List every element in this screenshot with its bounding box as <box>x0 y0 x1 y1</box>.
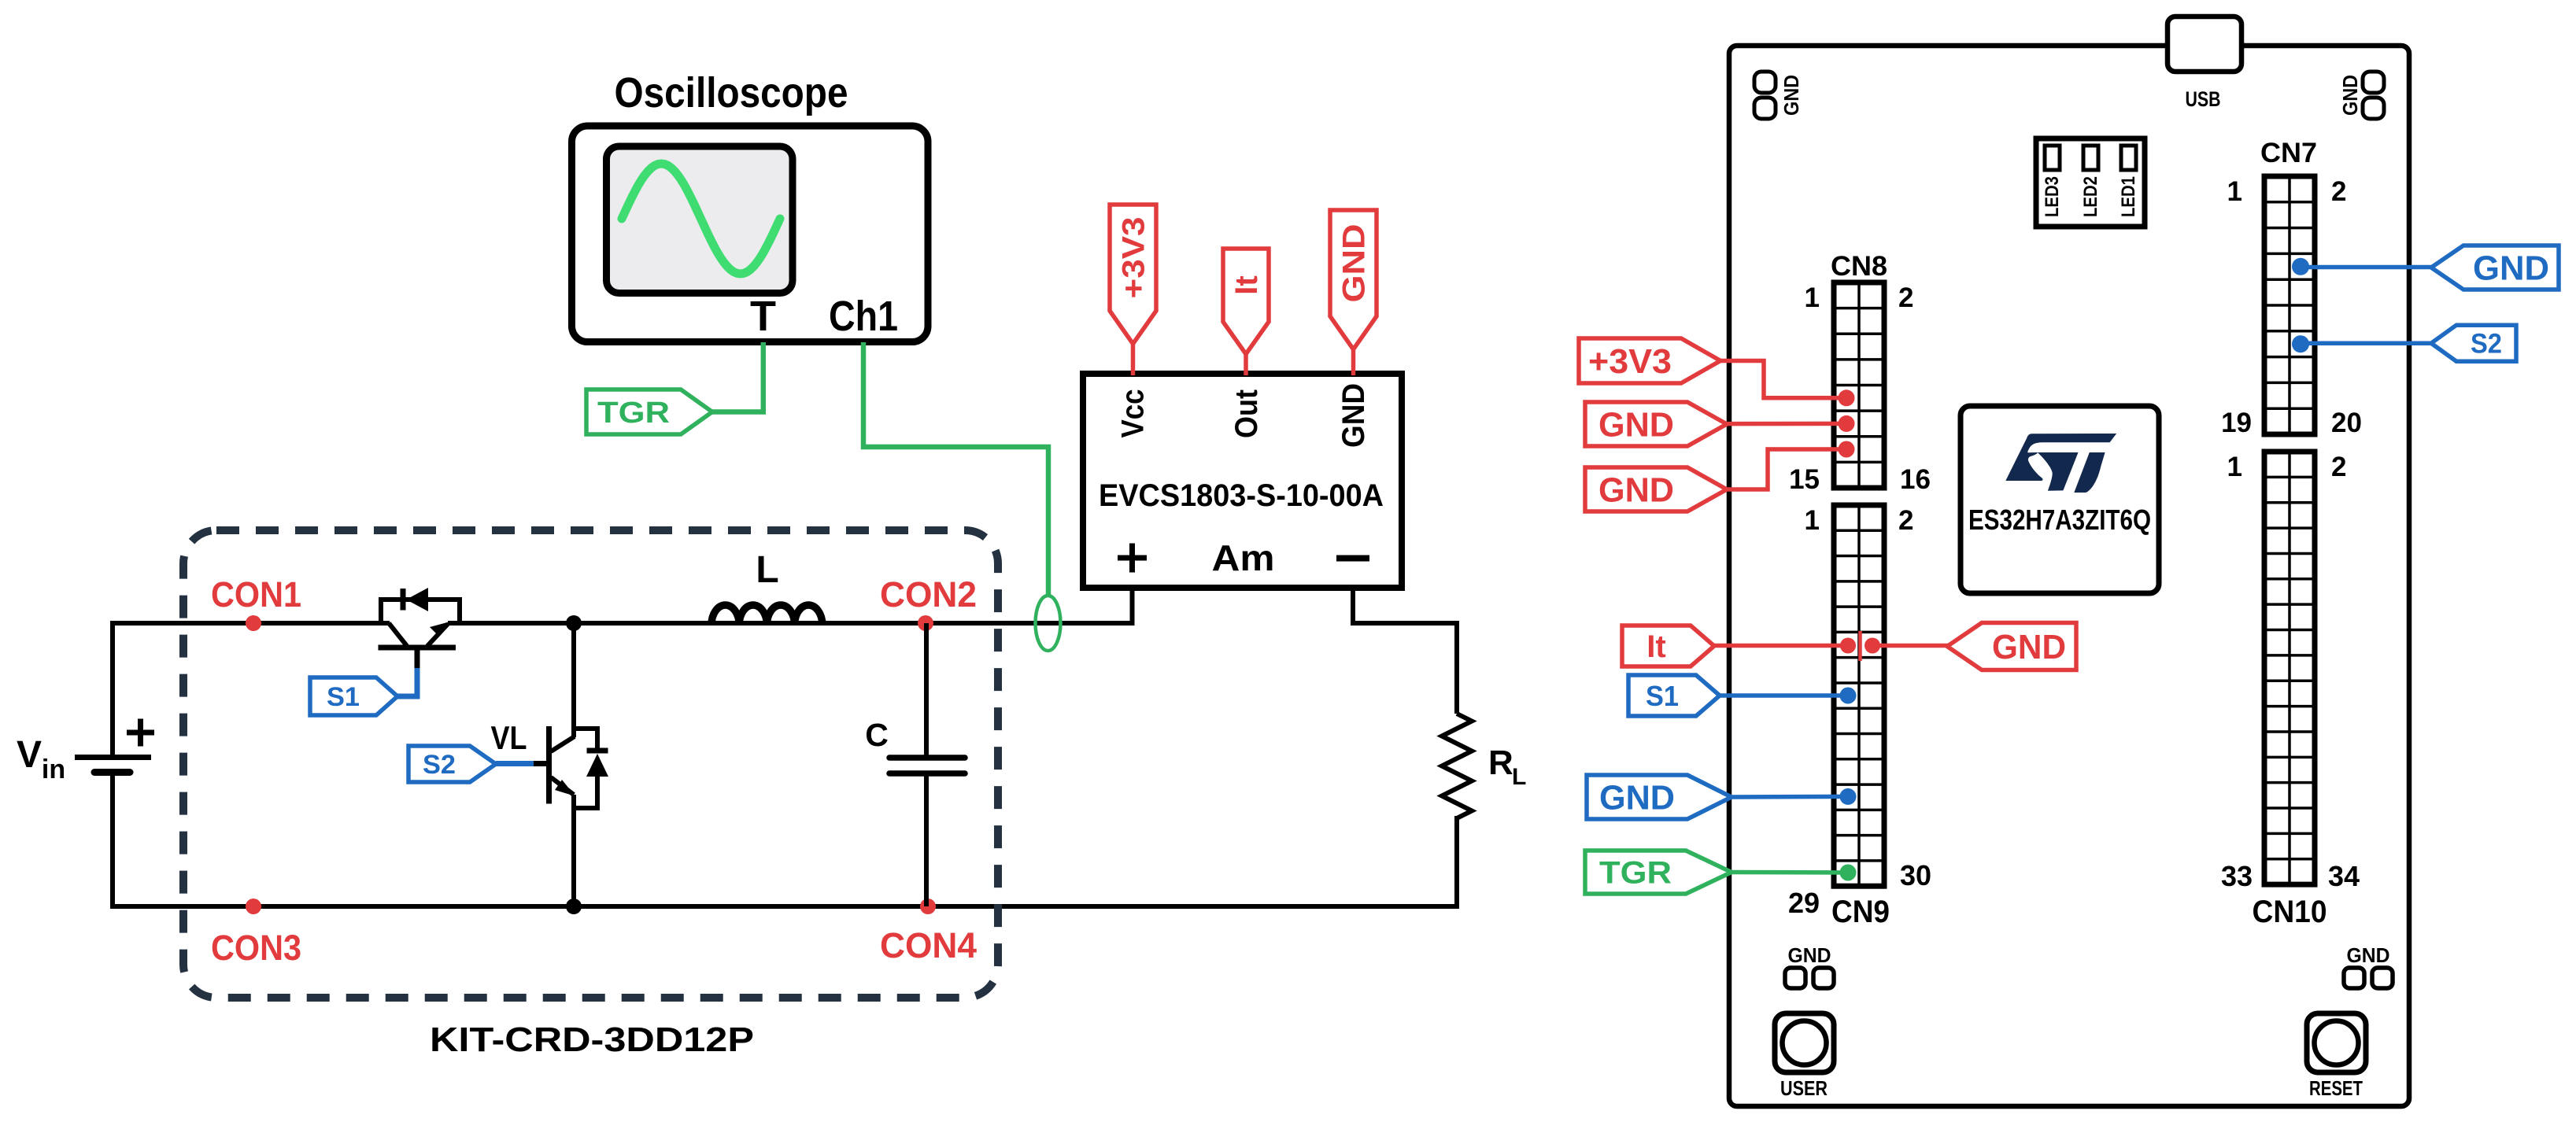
svg-text:Am: Am <box>1212 537 1275 578</box>
svg-text:GND: GND <box>2338 75 2362 116</box>
wire GND pin <box>1351 348 1356 375</box>
label RESET <box>2309 1076 2363 1100</box>
pin label GND sensor <box>1336 383 1371 448</box>
voltage source Vin battery symbol <box>75 719 154 773</box>
pin GND CN7 <box>2292 258 2309 275</box>
pin number 1 CN9 <box>1805 505 1820 536</box>
node CON3 <box>211 899 301 968</box>
pin dots CN8 red <box>1839 389 1855 457</box>
svg-text:KIT-CRD-3DD12P: KIT-CRD-3DD12P <box>430 1020 754 1059</box>
svg-text:LED1: LED1 <box>2118 176 2139 217</box>
svg-text:Out: Out <box>1229 389 1264 438</box>
wire capacitor top <box>924 623 929 757</box>
flag S2 <box>408 746 496 782</box>
wire minus pin <box>1351 585 1355 626</box>
resistor RL <box>1442 714 1472 818</box>
label KIT-CRD-3DD12P <box>430 1020 754 1059</box>
node CON2 <box>880 574 977 631</box>
svg-text:R: R <box>1488 744 1513 782</box>
label Vin <box>17 734 65 784</box>
label RL <box>1488 744 1526 790</box>
svg-text:29: 29 <box>1788 887 1820 919</box>
flag It sensor <box>1223 249 1269 354</box>
svg-text:16: 16 <box>1900 464 1931 495</box>
flag TGR board <box>1585 851 1732 894</box>
svg-text:EVCS1803-S-10-00A: EVCS1803-S-10-00A <box>1099 478 1384 513</box>
svg-text:T: T <box>750 293 776 340</box>
pin number 34 CN10 <box>2328 860 2360 892</box>
ST logo <box>2005 434 2116 493</box>
label EVCS1803-S-10-00A <box>1099 478 1384 513</box>
wire It pin <box>1244 352 1248 375</box>
pin dot TGR CN9 <box>1840 865 1857 881</box>
svg-text:GND: GND <box>1336 383 1371 448</box>
pin number 16 CN8 <box>1900 464 1931 495</box>
label L <box>756 549 778 591</box>
svg-text:+3V3: +3V3 <box>1588 342 1672 381</box>
flag GND red right <box>1947 623 2076 670</box>
wire GND board red2 <box>1725 449 1846 489</box>
wire plus pin <box>1130 585 1135 626</box>
node CON1 <box>211 574 301 631</box>
oscilloscope screen <box>607 146 793 293</box>
svg-text:It: It <box>1229 275 1264 294</box>
svg-text:19: 19 <box>2221 408 2252 438</box>
svg-text:V: V <box>17 734 42 776</box>
pin S2 CN7 <box>2292 335 2309 352</box>
svg-text:GND: GND <box>1598 406 1674 445</box>
pin number 19 CN7 <box>2221 408 2252 438</box>
node junction top <box>566 615 582 631</box>
pin number 33 CN10 <box>2221 860 2253 892</box>
GND pads top-right <box>2338 72 2384 119</box>
wire GND board blue <box>1730 795 1848 799</box>
pin number 2 CN7 <box>2331 176 2346 207</box>
svg-text:CN8: CN8 <box>1831 251 1887 282</box>
svg-text:GND: GND <box>1599 779 1675 817</box>
svg-text:GND: GND <box>2347 943 2390 967</box>
wire emitter to bottom rail <box>571 795 576 909</box>
MCU chip outline <box>1961 406 2159 593</box>
svg-text:20: 20 <box>2331 408 2362 438</box>
oscilloscope body <box>572 126 929 342</box>
wire capacitor bottom <box>924 775 929 906</box>
svg-text:CON1: CON1 <box>211 574 301 614</box>
dashed box KIT-CRD-3DD12P outline <box>183 530 998 998</box>
flag It board <box>1622 626 1714 666</box>
svg-text:TGR: TGR <box>1599 856 1672 891</box>
pin label Vcc <box>1116 389 1151 438</box>
flag GND board red2 <box>1585 467 1727 511</box>
flag GND board blue <box>1587 775 1732 819</box>
svg-text:GND: GND <box>1780 75 1803 116</box>
RESET button <box>2307 1013 2366 1072</box>
inductor L <box>711 605 822 625</box>
pin number 15 CN8 <box>1789 464 1820 495</box>
svg-text:2: 2 <box>1898 505 1913 536</box>
flag S1 board <box>1628 675 1720 716</box>
label Ch1 terminal <box>829 293 898 340</box>
svg-text:2: 2 <box>1898 282 1913 313</box>
label USB <box>2186 87 2221 111</box>
node CON4 <box>880 899 977 965</box>
svg-text:1: 1 <box>1805 505 1820 536</box>
wire It board <box>1713 644 1848 648</box>
pin dots It CN9 <box>1840 638 1880 654</box>
svg-text:34: 34 <box>2328 860 2360 892</box>
svg-text:1: 1 <box>2227 176 2242 207</box>
current sensor EVCS1803 box <box>1083 374 1402 588</box>
svg-text:ES32H7A3ZIT6Q: ES32H7A3ZIT6Q <box>1968 504 2151 536</box>
wire top rail right segment <box>448 621 1132 626</box>
wire RL top <box>1454 621 1459 714</box>
label CN7 <box>2260 138 2317 168</box>
svg-text:15: 15 <box>1789 464 1820 495</box>
label CN9 <box>1831 895 1890 929</box>
wire S2 CN7 blue <box>2301 341 2432 345</box>
svg-text:RESET: RESET <box>2309 1076 2363 1100</box>
svg-text:1: 1 <box>1805 282 1820 313</box>
wire RL bottom <box>1454 816 1459 909</box>
label CN10 <box>2253 895 2327 929</box>
svg-text:VL: VL <box>491 719 527 756</box>
connector CN9 <box>1834 505 1884 886</box>
label C <box>865 717 889 753</box>
svg-text:CON4: CON4 <box>880 925 977 965</box>
node junction bottom <box>566 899 582 914</box>
wire +3V3 pin <box>1131 342 1136 375</box>
capacitor C plates <box>889 758 965 773</box>
svg-text:S1: S1 <box>327 682 360 712</box>
board outline <box>1729 46 2409 1106</box>
svg-text:CN7: CN7 <box>2260 138 2317 168</box>
pin tick It red <box>1858 631 1862 661</box>
pin number 2 CN8 <box>1898 282 1913 313</box>
GND pads top-left <box>1754 72 1803 119</box>
pin number 20 CN7 <box>2331 408 2362 438</box>
svg-text:1: 1 <box>2227 452 2242 482</box>
svg-text:C: C <box>865 717 889 753</box>
wire +3V3 board <box>1719 361 1846 398</box>
GND pads bottom-left <box>1785 943 1834 988</box>
current probe loop <box>1036 596 1061 651</box>
flag GND sensor <box>1330 210 1377 349</box>
svg-text:GND: GND <box>1788 943 1831 967</box>
plus terminal mark <box>1118 544 1147 573</box>
svg-text:Vcc: Vcc <box>1116 389 1151 438</box>
label ES32H7A3ZIT6Q <box>1968 504 2151 536</box>
flag +3V3 sensor <box>1110 205 1156 344</box>
wire T to TGR green <box>711 342 763 412</box>
label Am <box>1212 537 1275 578</box>
wire switch-node vertical <box>571 621 576 737</box>
wire GND CN7 blue <box>2301 265 2432 270</box>
svg-text:S2: S2 <box>2471 329 2502 360</box>
svg-text:GND: GND <box>1598 471 1674 510</box>
svg-text:L: L <box>756 549 778 591</box>
wire S1 gate blue <box>397 668 417 696</box>
wire S1 board <box>1718 693 1848 698</box>
pin number 1 CN8 <box>1805 282 1820 313</box>
wire battery left branch top <box>110 621 115 758</box>
svg-text:CON2: CON2 <box>880 574 977 614</box>
svg-text:LED2: LED2 <box>2080 176 2101 217</box>
label VL <box>491 719 527 756</box>
label USER <box>1780 1076 1828 1100</box>
wire Ch1 to probe green <box>863 342 1048 597</box>
svg-text:GND: GND <box>1992 628 2066 666</box>
wire battery left branch bottom <box>110 772 115 909</box>
USER button <box>1775 1013 1834 1072</box>
svg-text:CN9: CN9 <box>1831 895 1890 929</box>
svg-text:30: 30 <box>1900 859 1931 891</box>
wire TGR board <box>1730 870 1848 875</box>
sine wave trace <box>622 164 780 274</box>
pin number 1 CN7 <box>2227 176 2242 207</box>
svg-text:Ch1: Ch1 <box>829 293 898 340</box>
transistor Q2 bottom IGBT VL with diode <box>549 726 609 808</box>
svg-text:2: 2 <box>2331 452 2346 482</box>
svg-text:CN10: CN10 <box>2253 895 2327 929</box>
pin number 29 CN9 <box>1788 887 1820 919</box>
svg-text:GND: GND <box>1337 224 1372 303</box>
wire GND board red1 <box>1725 422 1846 426</box>
minus terminal mark <box>1336 555 1369 562</box>
wire S2 gate blue <box>496 761 549 766</box>
svg-text:GND: GND <box>2473 249 2549 288</box>
label T terminal <box>750 293 776 340</box>
pin dot S1 CN9 <box>1840 688 1857 704</box>
pin number 2 CN10 <box>2331 452 2346 482</box>
flag GND board red1 <box>1585 402 1727 446</box>
connector CN10 <box>2264 452 2315 884</box>
LED indicators LED3 LED2 LED1 <box>2036 138 2145 227</box>
svg-text:S2: S2 <box>423 750 456 780</box>
label CN8 <box>1831 251 1887 282</box>
USB connector <box>2168 17 2242 72</box>
svg-text:Oscilloscope: Oscilloscope <box>615 69 848 116</box>
flag S2 right <box>2431 325 2516 361</box>
pin label Out <box>1229 389 1264 438</box>
svg-text:+3V3: +3V3 <box>1117 217 1151 299</box>
wire top rail left segment <box>110 621 390 626</box>
flag TGR scope <box>586 389 712 434</box>
connector CN8 <box>1834 282 1884 488</box>
svg-text:33: 33 <box>2221 860 2253 892</box>
wire minus to RL <box>1351 621 1459 626</box>
pin number 1 CN10 <box>2227 452 2242 482</box>
svg-text:USER: USER <box>1780 1076 1828 1100</box>
svg-text:CON3: CON3 <box>211 928 301 968</box>
svg-text:S1: S1 <box>1646 680 1679 712</box>
pin number 2 CN9 <box>1898 505 1913 536</box>
flag S1 <box>310 677 397 715</box>
flag GND right <box>2431 245 2559 290</box>
wire It to GND red right <box>1872 644 1949 648</box>
svg-text:in: in <box>42 755 65 784</box>
GND pads bottom-right <box>2344 943 2393 988</box>
wire bottom rail <box>110 904 1457 909</box>
svg-text:LED3: LED3 <box>2042 176 2063 217</box>
label Oscilloscope <box>615 69 848 116</box>
connector CN7 <box>2264 176 2315 434</box>
pin number 30 CN9 <box>1900 859 1931 891</box>
svg-text:USB: USB <box>2186 87 2221 111</box>
transistor Q1 top IGBT with diode <box>379 588 460 670</box>
flag +3V3 board <box>1579 338 1720 383</box>
svg-text:L: L <box>1512 764 1526 790</box>
svg-text:TGR: TGR <box>597 397 670 430</box>
svg-text:2: 2 <box>2331 176 2346 207</box>
svg-text:It: It <box>1646 629 1665 664</box>
pin dot GND CN9 <box>1840 788 1857 805</box>
